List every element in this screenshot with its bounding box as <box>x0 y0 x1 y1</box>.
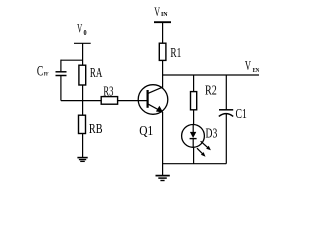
wire RA bottom to junction <box>82 85 84 115</box>
resistor R1 <box>159 43 166 60</box>
wire R2 branch top <box>193 75 195 91</box>
svg-text:V: V <box>154 5 160 19</box>
ground (right) <box>156 175 170 177</box>
wire RB bottom to ground <box>82 134 84 158</box>
svg-text:IN: IN <box>161 12 168 18</box>
capacitor CFF <box>56 71 67 73</box>
svg-text:R1: R1 <box>170 45 181 60</box>
svg-text:D3: D3 <box>206 125 218 140</box>
svg-text:R2: R2 <box>205 82 217 97</box>
wire R2 to D3 <box>193 110 195 125</box>
resistor RB <box>79 115 86 133</box>
wire CFF bottom lead <box>60 76 62 101</box>
wire bottom rail <box>163 163 227 165</box>
resistor R2 <box>191 92 197 110</box>
svg-text:V: V <box>77 21 82 35</box>
wire C1 branch top <box>225 75 227 110</box>
wire base net (CFF/RA/RB junction to Q1 base) <box>61 100 148 102</box>
svg-text:Q1: Q1 <box>139 123 153 138</box>
wire CFF top lead <box>60 60 62 72</box>
capacitor C1 (polarized) <box>219 109 233 111</box>
power rail bar VIN <box>154 21 171 23</box>
power rail bar V0 <box>74 42 91 44</box>
svg-text:V: V <box>245 58 251 73</box>
wire collector rail to VEN <box>163 74 259 76</box>
svg-text:FF: FF <box>44 71 49 77</box>
wire VIN bar to R1 <box>162 22 164 43</box>
svg-text:C1: C1 <box>236 106 247 121</box>
wire C1 to bottom rail <box>225 114 227 164</box>
wire emitter to bottom rail / ground <box>162 112 164 175</box>
transistor Q1 <box>138 85 168 115</box>
ground (left) <box>77 157 87 159</box>
resistor RA <box>79 65 86 85</box>
wire R1 bottom to collector junction <box>162 60 164 87</box>
LED D3 <box>182 124 211 156</box>
svg-text:RA: RA <box>90 65 103 80</box>
svg-text:0: 0 <box>84 29 87 37</box>
svg-text:EN: EN <box>253 67 260 74</box>
svg-text:RB: RB <box>89 121 103 136</box>
wire junction to CFF top <box>61 59 83 61</box>
wire V0 bar to RA <box>82 43 84 66</box>
wire D3 to bottom rail <box>193 147 195 163</box>
svg-text:R3: R3 <box>103 83 113 98</box>
svg-text:C: C <box>37 63 43 79</box>
resistor R3 <box>101 97 117 105</box>
